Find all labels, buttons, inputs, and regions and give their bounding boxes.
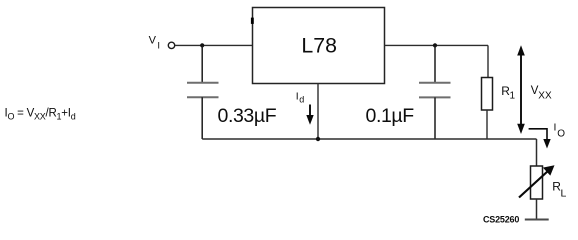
arrow IO (bent, down) (529, 129, 551, 149)
svg-text:L78: L78 (301, 34, 337, 58)
wire input terminal to regulator (175, 44, 253, 46)
svg-text:I: I (554, 122, 557, 134)
capacitor C2 0.1uF (419, 45, 451, 139)
wire regulator ground pin (317, 84, 319, 140)
resistor RL (variable) (531, 166, 543, 220)
node input junction (200, 43, 204, 47)
wire rail corner down to RL (536, 139, 538, 166)
svg-text:L: L (561, 188, 567, 200)
svg-text:0.1µF: 0.1µF (366, 105, 415, 127)
node ground junction (316, 137, 320, 141)
node VI input terminal (168, 42, 174, 48)
svg-text:0.33µF: 0.33µF (218, 105, 277, 127)
capacitor C1 0.33uF (187, 45, 219, 139)
svg-text:CS25260: CS25260 (483, 215, 519, 225)
svg-text:O: O (557, 128, 565, 139)
svg-text:IO = VXX/R1+Id: IO = VXX/R1+Id (5, 107, 76, 121)
resistor R1 (482, 78, 493, 140)
svg-text:XX: XX (538, 91, 552, 102)
wire rail corner down to R1 (487, 45, 489, 77)
svg-text:d: d (299, 95, 304, 105)
svg-text:1: 1 (510, 90, 516, 101)
arrow VXX (double-headed) (517, 45, 525, 134)
pin 1 marker on regulator left edge (251, 18, 254, 24)
terminal bar under RL (525, 219, 549, 221)
wire bottom ground rail (202, 138, 536, 140)
wire regulator output rail (385, 44, 489, 46)
node output junction (433, 43, 437, 47)
arrow Id (down) (306, 105, 313, 125)
svg-text:I: I (157, 41, 160, 52)
regulator U1 L78 (253, 8, 385, 84)
svg-text:V: V (149, 35, 157, 47)
arrow through RL (variable symbol) (519, 165, 555, 197)
